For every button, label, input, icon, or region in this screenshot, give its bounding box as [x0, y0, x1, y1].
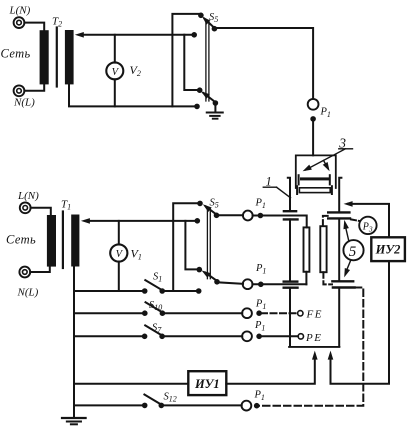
switch S5 upper mechanical link	[206, 21, 209, 101]
wire (S12 row)	[74, 404, 144, 406]
svg-text:Сеть: Сеть	[1, 47, 31, 61]
resistor R left	[304, 227, 310, 271]
arrowhead into box bottom (left)	[312, 351, 318, 360]
svg-text:FE: FE	[306, 308, 323, 320]
switch S1	[145, 280, 165, 294]
node	[142, 310, 148, 316]
left electrode stem	[289, 219, 291, 346]
wire	[184, 35, 198, 90]
electrode lead left	[288, 178, 290, 211]
svg-text:L(N): L(N)	[9, 5, 31, 17]
switch S5 lower pole 1	[201, 202, 219, 218]
electrode lead right	[339, 178, 341, 212]
wire	[217, 282, 243, 284]
node	[310, 116, 316, 122]
svg-text:V: V	[112, 67, 120, 78]
wire (S10 row)	[74, 312, 144, 314]
svg-text:S5: S5	[210, 198, 219, 210]
wire (IU1 row from bus)	[74, 383, 188, 385]
svg-text:Р1: Р1	[255, 263, 266, 276]
svg-text:Р1: Р1	[255, 198, 266, 211]
svg-text:Р1: Р1	[320, 107, 331, 120]
wire	[312, 119, 314, 155]
svg-text:N(L): N(L)	[17, 287, 39, 299]
node	[254, 403, 260, 409]
node	[142, 334, 148, 340]
switch S12	[144, 395, 164, 409]
wire (IU2 return)	[331, 261, 390, 384]
wire (T2 secondary bottom)	[69, 84, 197, 106]
wire (upper throw of lower S5 pole1)	[173, 203, 200, 291]
wire	[31, 208, 51, 215]
svg-text:Р3: Р3	[362, 222, 373, 234]
voltmeter V2	[106, 35, 123, 107]
connector plates (right electrode lower)	[332, 281, 354, 287]
label 3 with leader arrows	[301, 136, 352, 174]
switch S5 upper pole 2	[199, 89, 218, 106]
node	[256, 310, 262, 316]
svg-text:ИУ2: ИУ2	[375, 242, 401, 256]
switch S5 lower mechanical link	[207, 209, 210, 279]
svg-text:V: V	[116, 249, 124, 260]
connector plates (right electrode upper)	[328, 212, 350, 218]
specimen (lower bar in chamber)	[297, 186, 332, 194]
node	[258, 213, 264, 219]
instrument IU2	[371, 237, 405, 261]
arrowhead into box bottom (right)	[328, 351, 334, 360]
wire (tap of T1 secondary)	[81, 218, 197, 224]
svg-text:S1: S1	[153, 272, 162, 284]
ground (bottom)	[62, 418, 86, 424]
terminal P1 (row 215)	[243, 211, 253, 221]
svg-text:5: 5	[349, 244, 357, 260]
terminal P1 (PE row)	[242, 331, 252, 341]
switch S5 upper pole 1	[200, 14, 217, 31]
wire (S1 row)	[74, 290, 144, 292]
svg-text:S10: S10	[149, 300, 162, 312]
dashed wire (S12 to guard)	[257, 288, 363, 406]
wire (S5 to P1 top)	[214, 28, 313, 99]
node	[142, 403, 148, 409]
resistor R right	[320, 226, 326, 272]
wire	[162, 312, 242, 314]
svg-text:S12: S12	[164, 392, 177, 404]
ground (top section)	[207, 103, 223, 119]
node (lower S5 pole1 lower contact)	[195, 218, 201, 224]
wire (tap of T2 secondary to S5)	[75, 32, 194, 38]
node (lower S5 pole1 upper contact)	[197, 201, 203, 207]
svg-text:V1: V1	[131, 247, 142, 262]
dashed link to P3	[351, 219, 359, 221]
right electrode stem	[338, 219, 340, 346]
terminal PE	[298, 334, 303, 339]
wire (P1 row to resistor)	[253, 216, 307, 228]
node (S5 upper pole2 upper contact)	[197, 87, 203, 93]
terminal P1 (S12 row)	[242, 401, 252, 411]
terminal P1 (top)	[308, 99, 319, 110]
svg-text:PE: PE	[305, 332, 322, 344]
connector plates (left electrode upper)	[284, 211, 298, 219]
node	[258, 282, 264, 288]
dashed wire to FE	[261, 312, 298, 314]
wire (P1 row 284)	[252, 283, 306, 285]
svg-text:1: 1	[266, 175, 272, 189]
node (S5 upper pole2 lower contact)	[194, 104, 200, 110]
switch S7	[145, 325, 165, 339]
switch S10	[146, 302, 166, 316]
dashed guard wire lower	[323, 272, 332, 284]
appliance box bottom	[289, 346, 339, 348]
terminal FE	[298, 311, 303, 316]
wire (S7 row)	[74, 335, 144, 337]
wire	[172, 14, 201, 107]
svg-text:ИУ1: ИУ1	[194, 377, 220, 391]
svg-text:Р1: Р1	[254, 320, 265, 333]
wire	[24, 23, 44, 31]
terminal P1 (row 284)	[243, 279, 253, 289]
transformer T2	[40, 28, 74, 87]
node	[256, 334, 262, 340]
svg-text:V2: V2	[130, 63, 141, 78]
svg-text:L(N): L(N)	[17, 190, 39, 202]
wire (R left bottom lead)	[305, 272, 307, 285]
wire	[30, 267, 50, 272]
node (S5 upper pole1 upper contact)	[198, 13, 204, 19]
terminal N(L) (top section)	[14, 85, 25, 96]
wire (T1 secondary bottom)	[73, 267, 75, 418]
svg-text:Р1: Р1	[255, 299, 266, 312]
node (lower S5 pole2 upper contact)	[197, 267, 203, 273]
dashed guard wire upper	[323, 216, 328, 226]
wire to PE	[259, 335, 298, 337]
instrument IU1	[188, 371, 226, 395]
wire	[162, 335, 242, 337]
chamber 3 (box)	[296, 155, 336, 188]
label 1 with leader	[263, 175, 290, 198]
wire	[24, 84, 44, 90]
voltmeter V1	[110, 221, 127, 291]
wire with arrow from IU2 to electrode	[344, 201, 389, 237]
transformer T1	[47, 212, 79, 269]
wire	[162, 290, 199, 292]
svg-text:T1: T1	[61, 199, 71, 212]
callout 5 with arrows	[342, 219, 364, 278]
terminal P1 (FE row)	[242, 308, 252, 318]
meter P3	[359, 217, 376, 234]
node (lower S5 pole2 lower contact)	[196, 288, 202, 294]
wire (IU1 to box bottom)	[226, 357, 314, 384]
svg-text:Р1: Р1	[254, 390, 265, 403]
node (S5 upper pole1 lower contact)	[191, 32, 197, 38]
svg-text:S7: S7	[152, 323, 162, 335]
wire	[161, 404, 241, 406]
svg-text:T2: T2	[52, 16, 62, 29]
terminal N(L) (bottom section)	[19, 267, 30, 278]
svg-text:Сеть: Сеть	[6, 233, 36, 247]
wire	[217, 214, 244, 216]
terminal L(N) (bottom section)	[20, 202, 31, 213]
node	[142, 288, 148, 294]
switch S5 lower pole 2	[200, 268, 220, 285]
svg-text:S5: S5	[209, 12, 218, 24]
connector plates (left electrode lower)	[284, 282, 298, 288]
terminal L(N) (top section)	[14, 17, 25, 28]
heater element (upper bar in chamber)	[299, 175, 330, 184]
svg-text:N(L): N(L)	[13, 97, 35, 109]
wire	[185, 221, 198, 270]
